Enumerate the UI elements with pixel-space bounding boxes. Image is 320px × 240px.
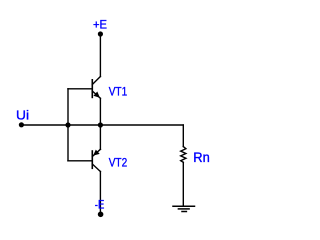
svg-text:Ui: Ui bbox=[16, 108, 29, 123]
wire: output node down to VT2 emitter bbox=[99, 125, 101, 149]
transistor VT2 emitter arrow bbox=[93, 150, 100, 156]
svg-text:Rn: Rn bbox=[193, 150, 210, 165]
wire: resistor Rn to ground bbox=[182, 162, 184, 206]
transistor VT2 base bar bbox=[91, 151, 93, 168]
transistor VT1 (NPN) base bar bbox=[91, 80, 93, 98]
junction dot: emitters output node bbox=[98, 122, 103, 127]
junction dot: bases node bbox=[65, 122, 70, 127]
wire: output line down to resistor Rn bbox=[182, 125, 184, 147]
ground symbol bbox=[173, 206, 195, 211]
transistor VT1 collector diagonal bbox=[92, 77, 100, 85]
svg-text:VT2: VT2 bbox=[109, 156, 128, 170]
wire: VT2 base lead bbox=[68, 160, 92, 162]
wire: base tie line between VT1 and VT2 bases bbox=[67, 89, 69, 161]
resistor Rn zigzag body bbox=[181, 147, 186, 163]
wire: VT1 emitter down to output node bbox=[99, 98, 101, 125]
terminal dot +E bbox=[98, 31, 103, 36]
terminal dot Ui input bbox=[19, 122, 24, 127]
transistor VT2 collector diagonal bbox=[92, 164, 100, 172]
wire: +E supply to VT1 collector bbox=[99, 34, 101, 77]
wire: input line Ui to output node and Rn bbox=[23, 124, 183, 126]
transistor VT1 emitter arrow bbox=[93, 92, 100, 98]
transistor VT2 (PNP) emitter diagonal bbox=[92, 149, 100, 156]
wire: VT2 collector down to -E supply bbox=[99, 172, 101, 214]
terminal dot -E bbox=[98, 212, 104, 218]
transistor VT1 emitter diagonal bbox=[92, 91, 100, 98]
wire: VT1 base lead bbox=[68, 88, 92, 90]
svg-text:+E: +E bbox=[93, 17, 107, 31]
svg-text:-E: -E bbox=[95, 197, 105, 211]
svg-text:VT1: VT1 bbox=[109, 85, 128, 99]
